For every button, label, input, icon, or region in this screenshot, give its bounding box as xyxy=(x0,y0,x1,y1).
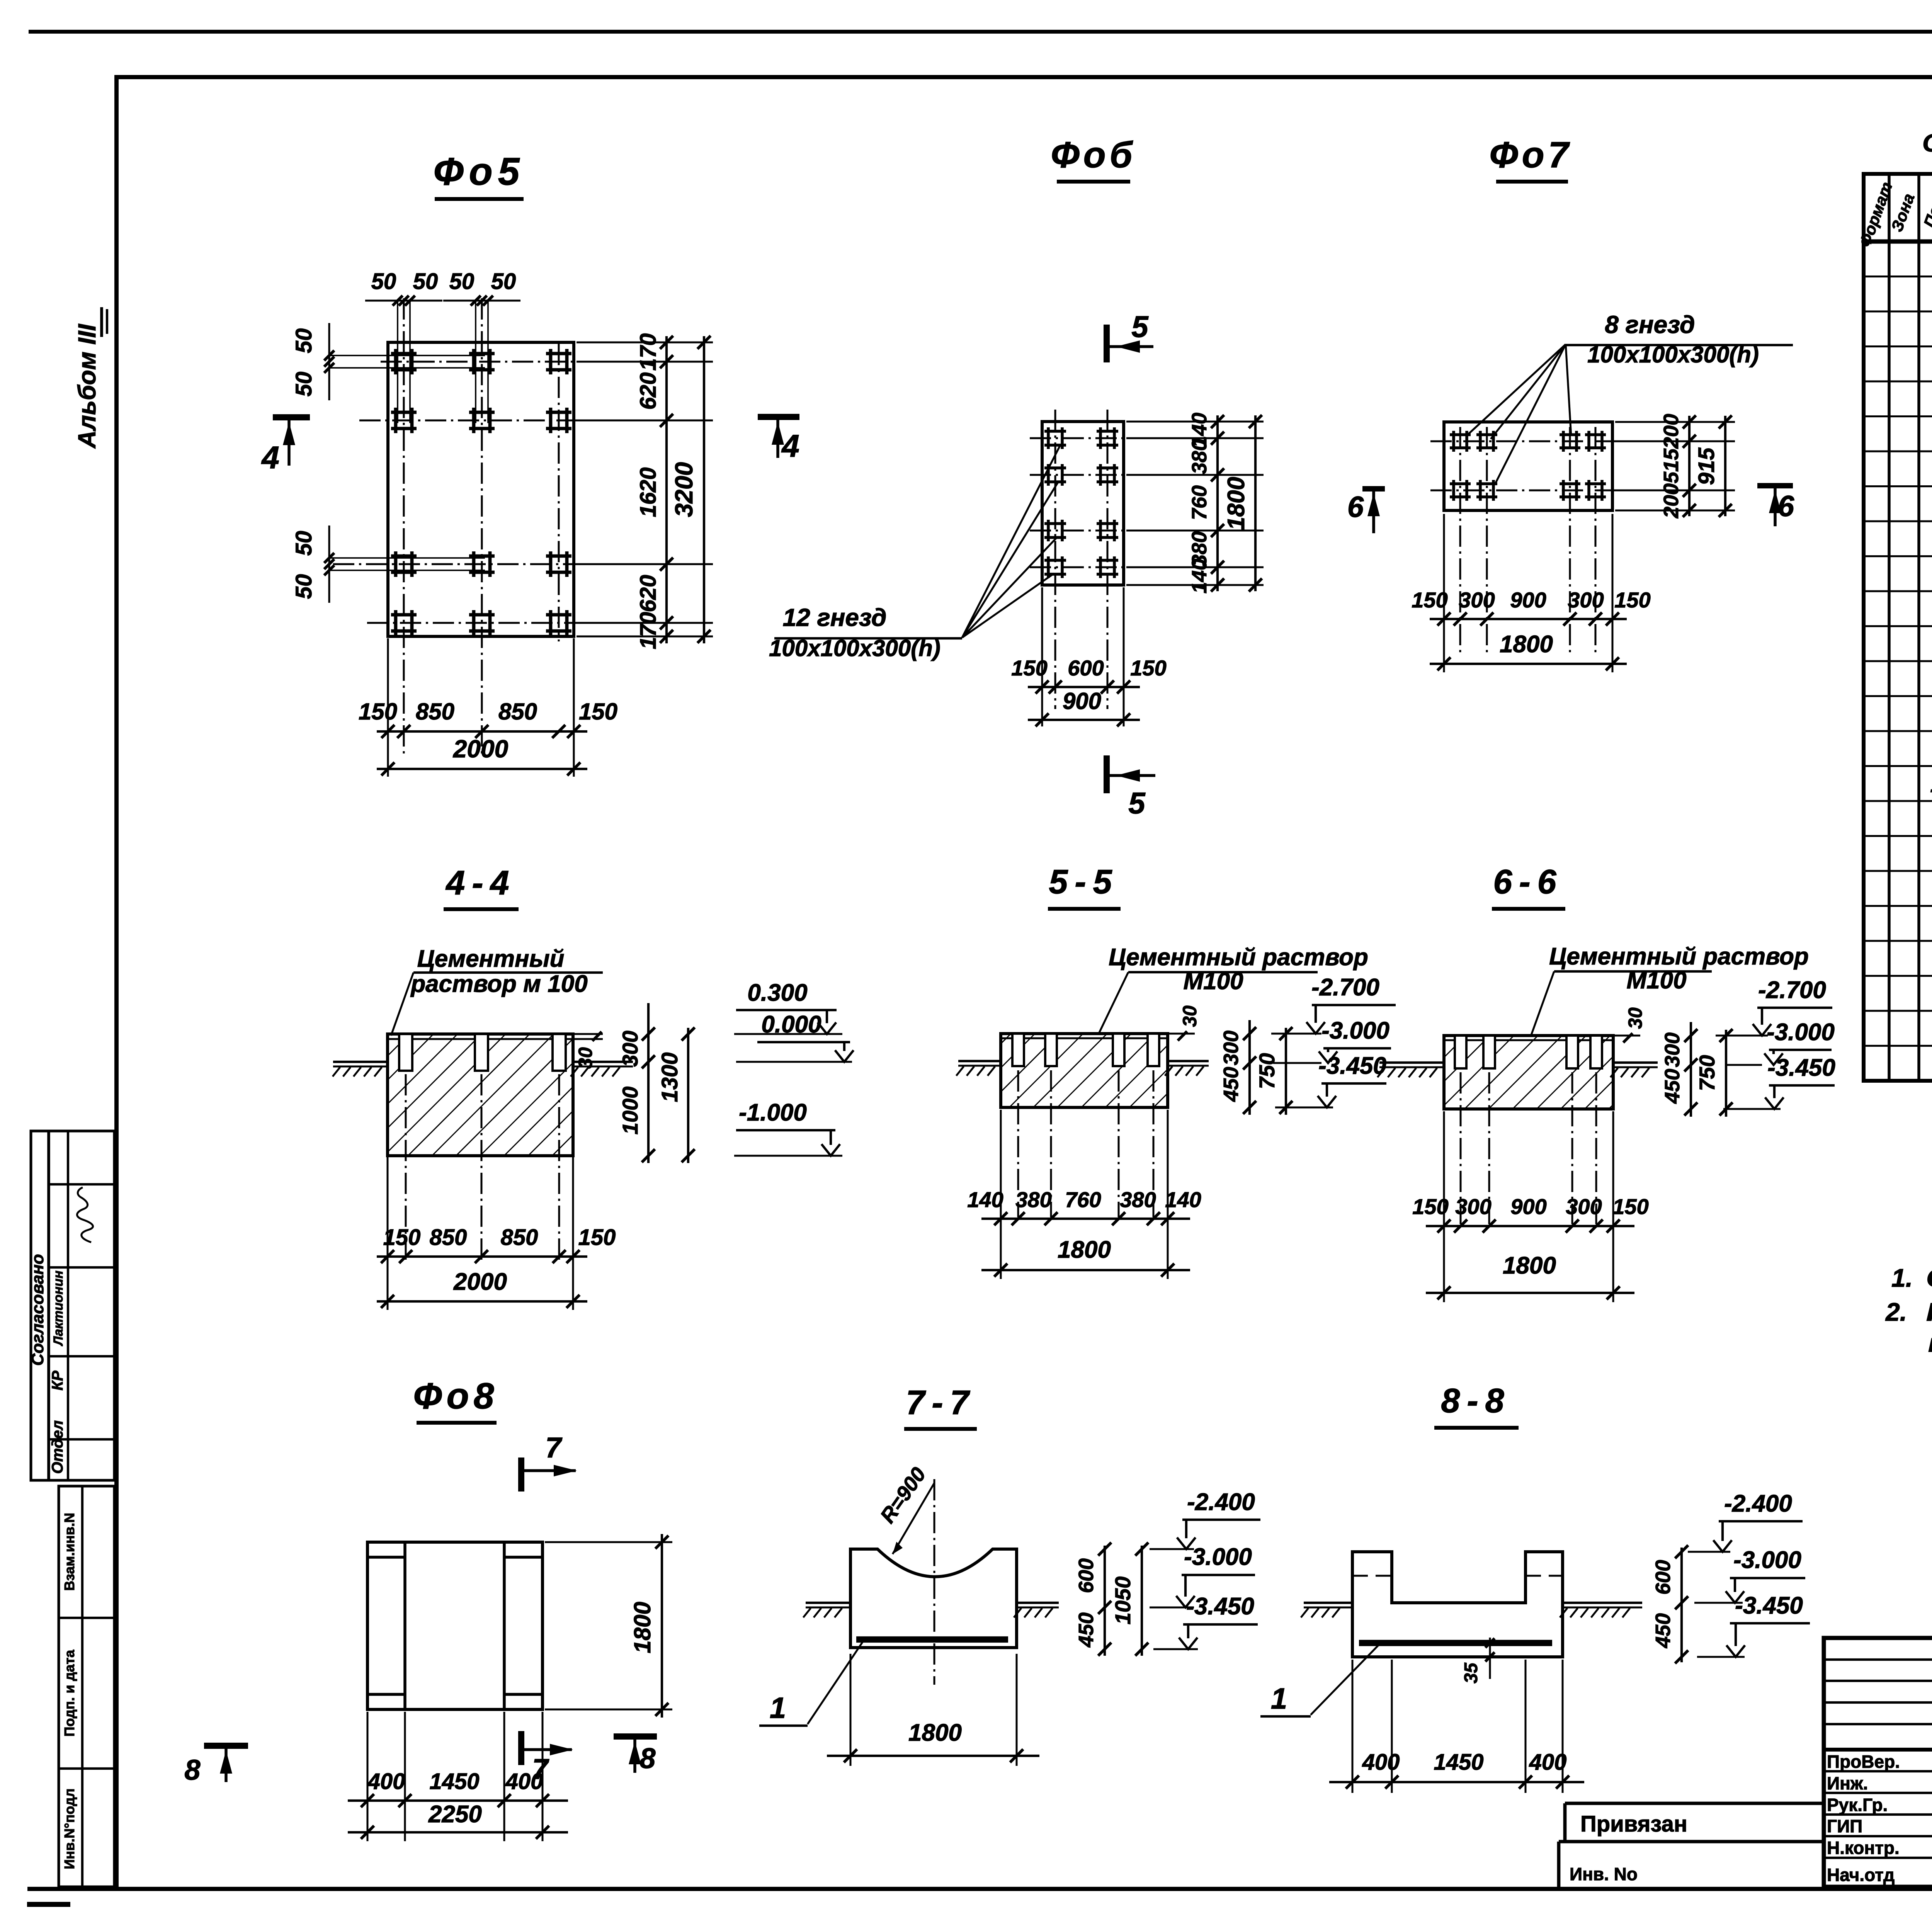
svg-text:Разбивку и размеры гнезд уточн: Разбивку и размеры гнезд уточнить при xyxy=(1926,1298,1932,1326)
svg-text:-3.450: -3.450 xyxy=(1767,1054,1835,1081)
svg-text:100х100х300(h): 100х100х300(h) xyxy=(1587,342,1759,367)
svg-text:900: 900 xyxy=(1063,688,1101,714)
svg-text:8 гнезд: 8 гнезд xyxy=(1605,311,1695,338)
section marker 8 left xyxy=(204,1743,248,1749)
svg-text:1.: 1. xyxy=(1891,1264,1913,1292)
svg-text:850: 850 xyxy=(501,1225,538,1250)
section marker 6 right xyxy=(1757,483,1793,488)
svg-text:50: 50 xyxy=(291,531,316,556)
svg-text:50: 50 xyxy=(291,574,316,599)
section marker 7 bottom xyxy=(518,1731,524,1765)
section 6-6 concrete block xyxy=(1444,1036,1613,1109)
section marker 4 right xyxy=(758,414,799,420)
svg-text:-1.000: -1.000 xyxy=(739,1099,807,1126)
spec table row lines xyxy=(1864,276,1932,277)
Fo7 bottom dim 1800 xyxy=(1430,663,1627,665)
svg-text:Взам.инв.N: Взам.инв.N xyxy=(61,1513,77,1591)
svg-text:150: 150 xyxy=(1614,588,1650,612)
svg-text:600: 600 xyxy=(1651,1560,1675,1595)
svg-text:380: 380 xyxy=(1188,439,1211,474)
5-5 vertical dim chain 300-450 xyxy=(1248,1020,1251,1115)
svg-text:1450: 1450 xyxy=(1434,1750,1483,1775)
svg-text:-2.400: -2.400 xyxy=(1187,1489,1255,1515)
scan artifact bottom left xyxy=(27,1902,70,1907)
svg-text:850: 850 xyxy=(416,699,454,724)
svg-text:0.000: 0.000 xyxy=(761,1011,821,1038)
svg-text:170: 170 xyxy=(636,333,661,371)
svg-text:450: 450 xyxy=(1661,1069,1684,1104)
svg-text:1: 1 xyxy=(770,1692,786,1725)
foundation Fo8 outline xyxy=(367,1542,543,1709)
svg-text:30: 30 xyxy=(1179,1005,1201,1027)
svg-text:1800: 1800 xyxy=(1500,631,1553,658)
Fo7 bottom dim chain 150-300-900-300-150 xyxy=(1443,514,1445,672)
Fo5 axis lines xyxy=(381,361,657,363)
svg-text:450: 450 xyxy=(1651,1613,1675,1648)
4-4 vertical dim chain 300-1000 xyxy=(647,1003,650,1163)
svg-text:1: 1 xyxy=(1930,771,1932,797)
svg-text:1800: 1800 xyxy=(908,1719,962,1746)
title block left thin rows xyxy=(1824,1658,1932,1661)
section 5-5 concrete block xyxy=(1001,1034,1168,1107)
svg-text:600: 600 xyxy=(1068,656,1104,680)
svg-text:5: 5 xyxy=(1128,786,1146,820)
6-6 vertical dim chain 300-450 xyxy=(1690,1022,1692,1117)
svg-text:850: 850 xyxy=(498,699,537,724)
svg-text:1800: 1800 xyxy=(1503,1252,1556,1279)
7-7 vertical dim 1050 xyxy=(1141,1546,1143,1656)
svg-text:300: 300 xyxy=(1455,1194,1491,1219)
svg-text:400: 400 xyxy=(1529,1750,1567,1775)
Fo5 bottom dim chain 150-850-850-150 xyxy=(387,638,389,777)
svg-text:Отдел: Отдел xyxy=(49,1420,66,1474)
svg-text:450: 450 xyxy=(1219,1067,1243,1102)
svg-text:850: 850 xyxy=(430,1225,467,1250)
Fo7 anchor pockets xyxy=(1450,433,1471,436)
section marker 8 right xyxy=(614,1733,657,1740)
svg-text:140: 140 xyxy=(967,1187,1003,1212)
6-6 ground lines xyxy=(1379,1061,1444,1064)
frame left xyxy=(114,75,119,1891)
svg-text:50: 50 xyxy=(491,269,516,294)
svg-text:Н.контр.: Н.контр. xyxy=(1827,1838,1900,1858)
foundation Fo5 outline xyxy=(388,342,574,636)
svg-text:150: 150 xyxy=(578,1225,616,1250)
svg-text:-3.000: -3.000 xyxy=(1321,1017,1389,1044)
svg-text:Инв.N°подл: Инв.N°подл xyxy=(61,1788,77,1869)
svg-text:Привязан: Привязан xyxy=(1580,1811,1687,1837)
svg-text:2.: 2. xyxy=(1885,1298,1907,1326)
svg-text:50: 50 xyxy=(371,269,396,294)
svg-text:150: 150 xyxy=(1412,1194,1448,1219)
svg-text:3200: 3200 xyxy=(670,462,698,517)
svg-text:Фо7: Фо7 xyxy=(1489,134,1572,175)
svg-text:50: 50 xyxy=(291,328,316,354)
svg-text:7-7: 7-7 xyxy=(906,1383,976,1422)
svg-text:300: 300 xyxy=(1661,1032,1684,1067)
svg-text:Альбом III: Альбом III xyxy=(73,324,101,449)
5-5 dim 30 xyxy=(1169,1033,1195,1035)
section marker 5 bottom xyxy=(1104,755,1110,793)
Fo5 anchor pockets xyxy=(391,352,417,355)
Fo8 bottom dim 2250 xyxy=(348,1831,568,1833)
svg-text:150: 150 xyxy=(359,699,397,724)
svg-text:1450: 1450 xyxy=(429,1769,479,1794)
svg-text:6-6: 6-6 xyxy=(1493,862,1563,901)
svg-text:150: 150 xyxy=(1412,588,1447,612)
6-6 dim 30 xyxy=(1615,1035,1640,1037)
Fo8 right dim 1800 xyxy=(545,1541,672,1543)
svg-text:7: 7 xyxy=(545,1432,563,1464)
section marker 7 top xyxy=(518,1458,524,1492)
svg-text:760: 760 xyxy=(1065,1187,1101,1212)
svg-text:-3.000: -3.000 xyxy=(1733,1547,1801,1573)
svg-text:515: 515 xyxy=(1660,448,1683,483)
svg-text:760: 760 xyxy=(1188,485,1211,520)
svg-text:915: 915 xyxy=(1694,447,1719,485)
svg-text:-3.450: -3.450 xyxy=(1186,1593,1254,1620)
4-4 bottom dim chain 150-850-850-150 xyxy=(387,1157,389,1310)
svg-text:2000: 2000 xyxy=(453,1269,507,1295)
svg-text:Рук.Гр.: Рук.Гр. xyxy=(1827,1795,1888,1815)
foundation Fo6 outline xyxy=(1042,422,1124,585)
svg-text:Спецификация монолитных фунд: Спецификация монолитных фундаментов под … xyxy=(1922,129,1932,157)
7-7 ground lines xyxy=(806,1602,850,1604)
svg-text:Согласовано: Согласовано xyxy=(28,1254,47,1366)
lower sidebar block xyxy=(59,1486,114,1887)
svg-text:300: 300 xyxy=(1219,1031,1243,1065)
Fo7 right dim 915 xyxy=(1724,416,1726,516)
svg-text:380: 380 xyxy=(1015,1187,1051,1212)
svg-text:Фо5: Фо5 xyxy=(434,150,525,193)
Fo6 bottom dim chain 150-600-150 xyxy=(1041,587,1043,726)
soglasovano block xyxy=(31,1131,114,1480)
Fo5 right dim chain 170-620-1620-620-170 xyxy=(577,342,713,344)
section 7-7 block with saddle xyxy=(850,1549,1017,1648)
svg-text:Схему расположения фундаментов: Схему расположения фундаментов см. лист … xyxy=(1926,1264,1932,1292)
svg-text:4-4: 4-4 xyxy=(445,864,516,902)
svg-text:150: 150 xyxy=(383,1225,421,1250)
svg-text:-2.400: -2.400 xyxy=(1724,1490,1792,1517)
5-5 vertical dim 750 xyxy=(1285,1028,1287,1115)
svg-text:30: 30 xyxy=(1624,1007,1646,1029)
svg-text:100х100х300(h): 100х100х300(h) xyxy=(769,635,940,661)
5-5 ground lines xyxy=(958,1060,1001,1062)
svg-text:Нач.отд: Нач.отд xyxy=(1827,1865,1895,1885)
svg-text:8: 8 xyxy=(639,1742,656,1774)
Fo5 right dim 3200 xyxy=(703,336,705,643)
svg-text:200: 200 xyxy=(1660,483,1683,519)
4-4 vertical dim 1300 xyxy=(687,1028,689,1163)
7-7 vertical dim chain 600-450 xyxy=(1104,1546,1106,1656)
8-8 ground lines xyxy=(1304,1602,1352,1604)
svg-text:0.300: 0.300 xyxy=(747,980,807,1006)
svg-text:50: 50 xyxy=(413,269,438,294)
Fo5 bottom dim 2000 xyxy=(377,768,587,770)
svg-text:35: 35 xyxy=(1461,1662,1481,1684)
4-4 ground lines xyxy=(333,1061,388,1063)
svg-text:8-8: 8-8 xyxy=(1441,1381,1511,1420)
4-4 bottom dim 2000 xyxy=(377,1300,587,1303)
svg-text:300: 300 xyxy=(1459,588,1495,612)
8-8 dim 35 xyxy=(1489,1638,1491,1679)
album III label xyxy=(73,307,107,449)
svg-text:620: 620 xyxy=(636,372,661,410)
svg-text:1000: 1000 xyxy=(618,1087,642,1135)
Fo6 bottom dim 900 xyxy=(1028,719,1140,721)
svg-text:50: 50 xyxy=(291,372,316,397)
frame bottom xyxy=(27,1887,1932,1891)
svg-text:8: 8 xyxy=(184,1754,201,1786)
section 8-8 block outline xyxy=(1352,1552,1563,1657)
svg-text:400: 400 xyxy=(367,1769,405,1794)
svg-text:ПроВер.: ПроВер. xyxy=(1827,1752,1900,1772)
7-7 reinforcing mesh pos.1 xyxy=(856,1636,1008,1643)
svg-text:-2.700: -2.700 xyxy=(1758,977,1826,1003)
section 4-4 concrete block xyxy=(388,1034,573,1156)
svg-text:Лактионин: Лактионин xyxy=(51,1270,66,1347)
Fo7 axis lines xyxy=(1430,440,1615,442)
svg-text:380: 380 xyxy=(1120,1187,1156,1212)
svg-text:150: 150 xyxy=(1612,1194,1648,1219)
scan border top xyxy=(29,30,1932,34)
svg-text:-2.700: -2.700 xyxy=(1311,974,1379,1001)
5-5 bottom dim 1800 xyxy=(981,1269,1190,1271)
svg-text:140: 140 xyxy=(1165,1187,1201,1212)
Fo6 axis lines xyxy=(1030,437,1223,439)
svg-text:1800: 1800 xyxy=(629,1602,655,1653)
svg-text:5-5: 5-5 xyxy=(1049,862,1119,901)
spec table frame xyxy=(1864,174,1932,1081)
svg-text:-3.450: -3.450 xyxy=(1318,1053,1386,1079)
5-5 bottom dim chain 140-380-760-380-140 xyxy=(1000,1110,1002,1279)
svg-text:30: 30 xyxy=(575,1047,596,1069)
svg-text:4: 4 xyxy=(781,429,799,464)
svg-text:Цементный раствор: Цементный раствор xyxy=(1549,943,1809,970)
svg-text:Инж.: Инж. xyxy=(1827,1773,1868,1793)
svg-text:150: 150 xyxy=(579,699,617,724)
section marker 5 top xyxy=(1104,325,1110,362)
svg-text:750: 750 xyxy=(1255,1053,1279,1089)
svg-text:5: 5 xyxy=(1131,310,1149,344)
svg-text:1800: 1800 xyxy=(1223,477,1250,530)
svg-text:-3.000: -3.000 xyxy=(1184,1544,1252,1570)
svg-text:300: 300 xyxy=(1566,1194,1602,1219)
svg-text:150: 150 xyxy=(1130,656,1166,680)
svg-text:170: 170 xyxy=(636,612,661,650)
title block outline xyxy=(1824,1638,1932,1887)
6-6 anchor slots xyxy=(1455,1036,1466,1068)
svg-text:2250: 2250 xyxy=(428,1801,482,1828)
foundation Fo7 outline xyxy=(1444,422,1612,510)
6-6 vertical dim 750 xyxy=(1725,1030,1727,1117)
privyazan box xyxy=(1565,1802,1824,1805)
svg-text:1800: 1800 xyxy=(1058,1236,1111,1263)
section marker 4 left xyxy=(273,414,310,420)
svg-text:1050: 1050 xyxy=(1111,1577,1135,1625)
8-8 vertical dim chain 600-450 xyxy=(1680,1548,1683,1662)
svg-text:-3.450: -3.450 xyxy=(1735,1592,1803,1619)
svg-text:1: 1 xyxy=(1271,1682,1287,1715)
7-7 centerline xyxy=(934,1479,935,1685)
svg-text:получении оборудования.: получении оборудования. xyxy=(1928,1328,1932,1357)
svg-text:КР: КР xyxy=(49,1371,66,1391)
svg-text:6: 6 xyxy=(1778,490,1794,523)
svg-text:140: 140 xyxy=(1188,559,1211,594)
svg-text:Фоб: Фоб xyxy=(1051,134,1136,175)
svg-text:2000: 2000 xyxy=(453,735,508,763)
svg-text:Подп. и дата: Подп. и дата xyxy=(61,1650,77,1737)
8-8 reinforcing mesh pos.1 xyxy=(1359,1640,1552,1646)
7-7 bottom dim 1800 xyxy=(850,1654,852,1766)
svg-text:300: 300 xyxy=(618,1031,642,1066)
4-4 dim 30 xyxy=(575,1033,603,1035)
svg-text:400: 400 xyxy=(1362,1750,1400,1775)
svg-text:620: 620 xyxy=(636,575,661,612)
svg-text:-3.000: -3.000 xyxy=(1767,1019,1835,1046)
svg-text:6: 6 xyxy=(1347,491,1364,524)
5-5 anchor slots xyxy=(1012,1034,1024,1066)
svg-text:450: 450 xyxy=(1075,1612,1098,1648)
svg-text:1300: 1300 xyxy=(657,1052,682,1102)
svg-text:300: 300 xyxy=(1568,588,1604,612)
svg-text:600: 600 xyxy=(1075,1558,1098,1593)
svg-text:900: 900 xyxy=(1510,588,1546,612)
Fo6 right dim 1800 xyxy=(1254,415,1257,591)
6-6 bottom dim 1800 xyxy=(1426,1292,1634,1294)
6-6 bottom dim chain 150-300-900-300-150 xyxy=(1443,1111,1445,1302)
svg-text:900: 900 xyxy=(1510,1194,1546,1219)
frame top xyxy=(114,75,1932,79)
svg-text:Фо8: Фо8 xyxy=(413,1376,498,1417)
Fo6 anchor pockets xyxy=(1044,430,1066,433)
svg-text:1620: 1620 xyxy=(636,467,661,517)
svg-text:50: 50 xyxy=(449,269,474,294)
svg-text:150: 150 xyxy=(1011,656,1047,680)
section marker 6 left xyxy=(1362,486,1385,492)
svg-text:4: 4 xyxy=(261,440,279,475)
svg-text:Инв. No: Инв. No xyxy=(1570,1864,1638,1884)
svg-text:ГИП: ГИП xyxy=(1827,1816,1862,1836)
svg-text:400: 400 xyxy=(505,1769,543,1794)
svg-text:12 гнезд: 12 гнезд xyxy=(783,604,887,631)
4-4 anchor slots xyxy=(399,1034,412,1071)
Fo8 bottom dim chain 400-1450-400 xyxy=(367,1712,369,1841)
svg-text:Цементный раствор: Цементный раствор xyxy=(1109,944,1368,971)
svg-text:Цементный: Цементный xyxy=(417,946,565,972)
Fo7 right dim chain 200-515-200 xyxy=(1615,421,1735,423)
8-8 column dashed lines xyxy=(1352,1575,1392,1577)
radius R=900 xyxy=(893,1483,934,1554)
svg-text:750: 750 xyxy=(1695,1055,1719,1091)
svg-text:раствор м 100: раствор м 100 xyxy=(410,971,587,997)
svg-text:200: 200 xyxy=(1660,414,1683,449)
8-8 bottom dim chain 400-1450-400 xyxy=(1352,1660,1354,1793)
Fo6 right dim chain 140-380-760-380-140 xyxy=(1126,421,1264,423)
